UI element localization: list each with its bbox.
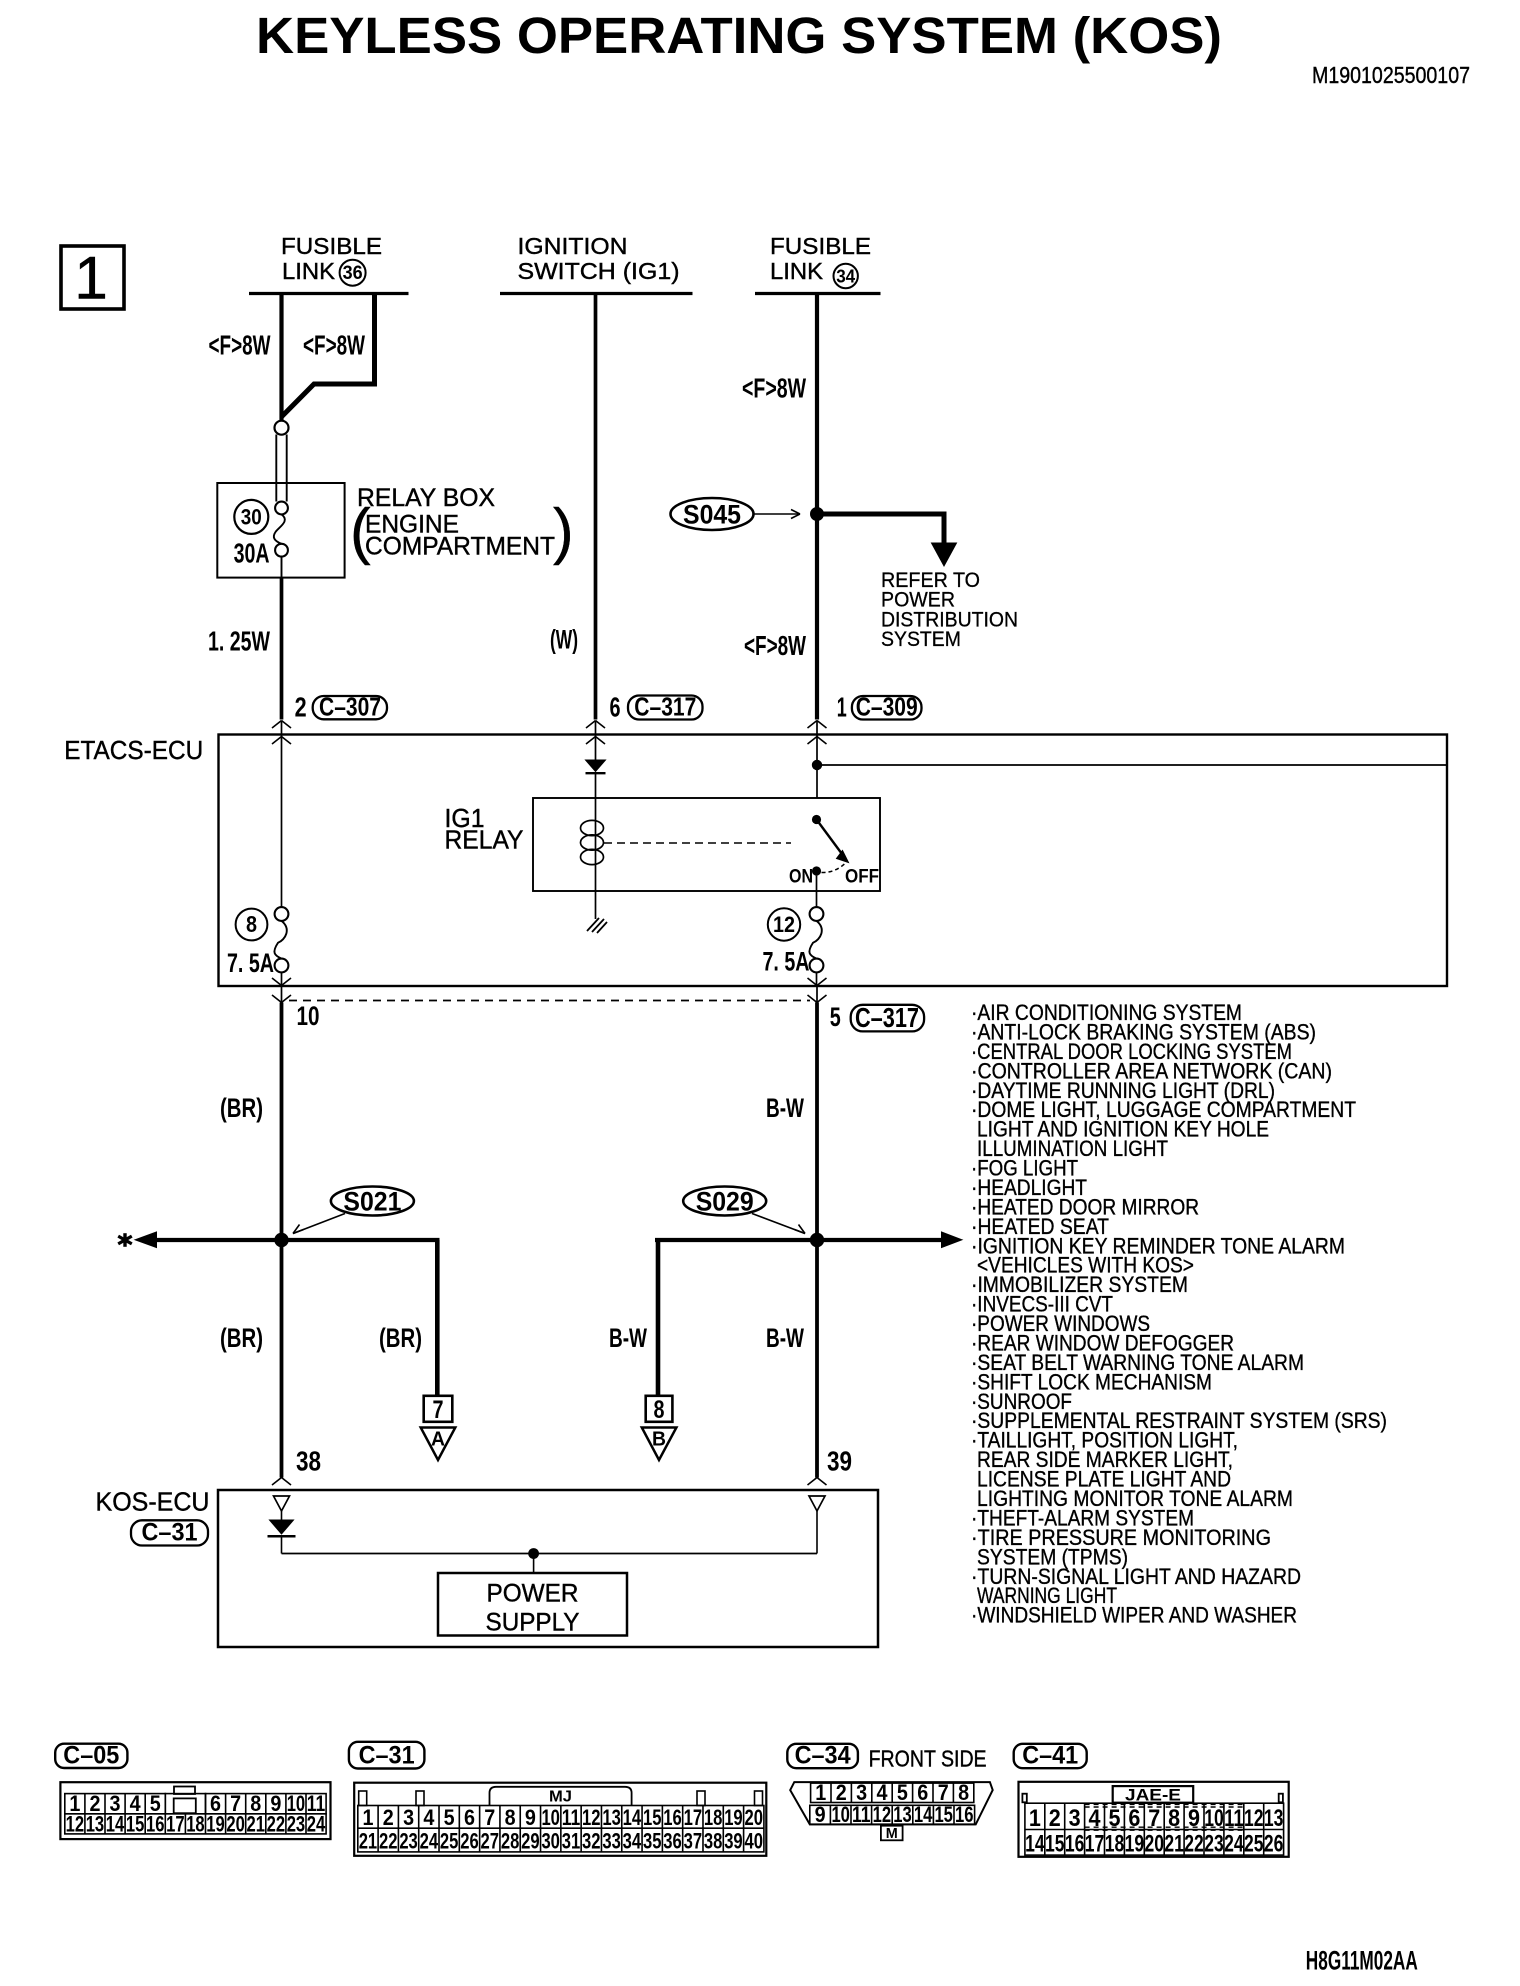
svg-text:S045: S045 <box>683 500 741 530</box>
svg-text:39: 39 <box>724 1829 743 1854</box>
svg-text:1: 1 <box>74 245 107 312</box>
svg-text:16: 16 <box>146 1811 165 1836</box>
svg-text:2: 2 <box>1049 1805 1061 1832</box>
svg-text:11: 11 <box>852 1802 871 1827</box>
svg-text:RELAY: RELAY <box>445 825 524 855</box>
svg-text:23: 23 <box>287 1811 306 1836</box>
svg-text:15: 15 <box>934 1802 953 1827</box>
svg-text:S029: S029 <box>696 1187 754 1217</box>
svg-text:11: 11 <box>562 1805 581 1830</box>
svg-text:9: 9 <box>815 1802 826 1827</box>
svg-text:C–317: C–317 <box>634 692 696 722</box>
svg-text:ON: ON <box>789 867 813 888</box>
svg-text:38: 38 <box>296 1446 321 1477</box>
svg-text:12: 12 <box>66 1811 85 1836</box>
svg-text:12: 12 <box>873 1802 892 1827</box>
svg-text:18: 18 <box>1105 1831 1125 1858</box>
svg-text:13: 13 <box>893 1802 912 1827</box>
svg-text:15: 15 <box>643 1805 662 1830</box>
svg-text:C–31: C–31 <box>142 1519 198 1547</box>
svg-text:OFF: OFF <box>845 867 879 888</box>
svg-text:10: 10 <box>1204 1805 1224 1832</box>
svg-text:16: 16 <box>663 1805 682 1830</box>
svg-text:2: 2 <box>383 1805 394 1830</box>
svg-text:KEYLESS OPERATING SYSTEM (KOS): KEYLESS OPERATING SYSTEM (KOS) <box>256 7 1222 64</box>
svg-text:24: 24 <box>420 1829 439 1854</box>
svg-text:21: 21 <box>1164 1831 1184 1858</box>
svg-text:B-W: B-W <box>766 1093 804 1123</box>
svg-text:17: 17 <box>684 1805 703 1830</box>
svg-text:16: 16 <box>1065 1831 1085 1858</box>
svg-text:22: 22 <box>1184 1831 1204 1858</box>
svg-text:33: 33 <box>602 1829 621 1854</box>
svg-text:15: 15 <box>1045 1831 1065 1858</box>
svg-text:7: 7 <box>484 1805 495 1830</box>
svg-text:35: 35 <box>643 1829 662 1854</box>
svg-text:A: A <box>431 1429 445 1451</box>
svg-text:3: 3 <box>1069 1805 1081 1832</box>
svg-text:FUSIBLE: FUSIBLE <box>281 233 382 259</box>
svg-text:C–34: C–34 <box>795 1742 851 1770</box>
svg-text:40: 40 <box>744 1829 763 1854</box>
svg-text:12: 12 <box>773 912 795 937</box>
svg-text:7. 5A: 7. 5A <box>763 947 810 977</box>
svg-text:1: 1 <box>1029 1805 1041 1832</box>
svg-text:RELAY BOX: RELAY BOX <box>357 484 495 512</box>
svg-text:8: 8 <box>505 1805 516 1830</box>
svg-text:SYSTEM: SYSTEM <box>881 628 961 651</box>
svg-text:9: 9 <box>525 1805 536 1830</box>
svg-text:M1901025500107: M1901025500107 <box>1312 62 1470 88</box>
svg-text:17: 17 <box>166 1811 185 1836</box>
svg-text:28: 28 <box>501 1829 520 1854</box>
svg-text:29: 29 <box>521 1829 540 1854</box>
svg-text:(BR): (BR) <box>220 1093 263 1123</box>
svg-text:23: 23 <box>1204 1831 1224 1858</box>
svg-text:M: M <box>886 1825 898 1842</box>
svg-text:C–317: C–317 <box>855 1002 919 1033</box>
svg-text:25: 25 <box>440 1829 459 1854</box>
svg-text:H8G11M02AA: H8G11M02AA <box>1306 1946 1418 1976</box>
svg-text:C–41: C–41 <box>1022 1742 1078 1770</box>
svg-text:13: 13 <box>602 1805 621 1830</box>
svg-text:31: 31 <box>562 1829 581 1854</box>
svg-text:<F>8W: <F>8W <box>303 330 365 361</box>
svg-text:6: 6 <box>464 1805 475 1830</box>
svg-text:14: 14 <box>106 1811 125 1836</box>
svg-text:11: 11 <box>1224 1805 1244 1832</box>
svg-text:B: B <box>652 1429 666 1451</box>
svg-text:30: 30 <box>541 1829 560 1854</box>
svg-text:26: 26 <box>1264 1831 1284 1858</box>
svg-text:20: 20 <box>226 1811 245 1836</box>
svg-text:38: 38 <box>704 1829 723 1854</box>
svg-text:2: 2 <box>295 692 307 723</box>
svg-text:21: 21 <box>247 1811 266 1836</box>
svg-text:20: 20 <box>1145 1831 1165 1858</box>
svg-text:24: 24 <box>1224 1831 1244 1858</box>
svg-text:LINK: LINK <box>770 258 824 284</box>
svg-text:C–31: C–31 <box>359 1742 415 1770</box>
svg-text:FUSIBLE: FUSIBLE <box>770 233 871 259</box>
svg-text:4: 4 <box>423 1805 435 1830</box>
svg-text:6: 6 <box>1128 1805 1140 1832</box>
svg-text:(BR): (BR) <box>379 1323 422 1353</box>
svg-text:37: 37 <box>684 1829 703 1854</box>
svg-text:·WINDSHIELD WIPER AND WASHER: ·WINDSHIELD WIPER AND WASHER <box>971 1603 1297 1628</box>
svg-text:22: 22 <box>379 1829 398 1854</box>
svg-text:S021: S021 <box>343 1187 401 1217</box>
svg-text:5: 5 <box>830 1002 841 1032</box>
svg-text:FRONT SIDE: FRONT SIDE <box>869 1746 987 1772</box>
svg-text:14: 14 <box>1025 1831 1045 1858</box>
svg-text:8: 8 <box>654 1396 665 1424</box>
svg-text:C–307: C–307 <box>319 692 381 722</box>
svg-text:7: 7 <box>433 1396 444 1424</box>
svg-text:21: 21 <box>359 1829 378 1854</box>
svg-text:(: ( <box>350 497 371 566</box>
svg-text:19: 19 <box>724 1805 743 1830</box>
svg-text:14: 14 <box>623 1805 642 1830</box>
svg-text:26: 26 <box>460 1829 479 1854</box>
svg-text:<F>8W: <F>8W <box>742 373 806 404</box>
svg-text:JAE-E: JAE-E <box>1125 1785 1181 1804</box>
svg-text:7. 5A: 7. 5A <box>227 948 274 978</box>
svg-text:COMPARTMENT: COMPARTMENT <box>365 533 555 561</box>
svg-text:ETACS-ECU: ETACS-ECU <box>64 735 203 765</box>
svg-text:30: 30 <box>241 505 262 530</box>
svg-text:13: 13 <box>86 1811 105 1836</box>
svg-text:12: 12 <box>1244 1805 1264 1832</box>
svg-text:(BR): (BR) <box>220 1323 263 1353</box>
svg-text:B-W: B-W <box>766 1323 804 1353</box>
svg-text:18: 18 <box>704 1805 723 1830</box>
svg-text:7: 7 <box>1148 1805 1160 1832</box>
svg-text:1. 25W: 1. 25W <box>208 626 270 657</box>
svg-text:36: 36 <box>343 263 363 284</box>
svg-text:27: 27 <box>481 1829 500 1854</box>
svg-text:10: 10 <box>541 1805 560 1830</box>
svg-text:39: 39 <box>827 1446 852 1477</box>
svg-text:SUPPLY: SUPPLY <box>486 1609 580 1637</box>
svg-text:32: 32 <box>582 1829 601 1854</box>
svg-text:36: 36 <box>663 1829 682 1854</box>
svg-text:16: 16 <box>955 1802 974 1827</box>
svg-text:17: 17 <box>1085 1831 1105 1858</box>
svg-text:23: 23 <box>399 1829 418 1854</box>
svg-text:24: 24 <box>307 1811 326 1836</box>
svg-text:<F>8W: <F>8W <box>209 330 271 361</box>
svg-text:6: 6 <box>610 692 621 723</box>
svg-text:(W): (W) <box>550 625 578 655</box>
svg-text:B-W: B-W <box>609 1323 647 1353</box>
svg-text:19: 19 <box>206 1811 225 1836</box>
svg-text:9: 9 <box>1188 1805 1200 1832</box>
svg-text:10: 10 <box>297 1001 320 1031</box>
svg-text:): ) <box>553 497 574 566</box>
svg-text:18: 18 <box>186 1811 205 1836</box>
svg-text:1: 1 <box>362 1805 373 1830</box>
svg-text:25: 25 <box>1244 1831 1264 1858</box>
svg-text:34: 34 <box>836 266 855 286</box>
svg-text:8: 8 <box>1168 1805 1180 1832</box>
svg-text:8: 8 <box>246 911 257 937</box>
svg-text:MJ: MJ <box>549 1789 572 1806</box>
svg-text:1: 1 <box>837 692 847 723</box>
svg-text:5: 5 <box>444 1805 455 1830</box>
svg-text:SWITCH (IG1): SWITCH (IG1) <box>518 258 680 284</box>
svg-text:20: 20 <box>744 1805 763 1830</box>
svg-text:<F>8W: <F>8W <box>744 630 806 661</box>
svg-text:34: 34 <box>623 1829 642 1854</box>
svg-text:3: 3 <box>403 1805 414 1830</box>
svg-text:10: 10 <box>831 1802 850 1827</box>
svg-text:C–05: C–05 <box>63 1742 119 1770</box>
svg-text:LINK: LINK <box>282 258 336 284</box>
svg-text:15: 15 <box>126 1811 145 1836</box>
svg-text:KOS-ECU: KOS-ECU <box>96 1487 210 1517</box>
svg-text:5: 5 <box>1108 1805 1120 1832</box>
svg-text:22: 22 <box>267 1811 286 1836</box>
svg-text:C–309: C–309 <box>856 692 918 722</box>
svg-text:14: 14 <box>914 1802 933 1827</box>
svg-text:4: 4 <box>1089 1805 1102 1832</box>
svg-text:13: 13 <box>1264 1805 1284 1832</box>
svg-text:30A: 30A <box>234 538 270 569</box>
svg-text:POWER: POWER <box>487 1580 579 1608</box>
svg-text:12: 12 <box>582 1805 601 1830</box>
svg-text:19: 19 <box>1125 1831 1145 1858</box>
svg-text:IGNITION: IGNITION <box>518 233 628 259</box>
